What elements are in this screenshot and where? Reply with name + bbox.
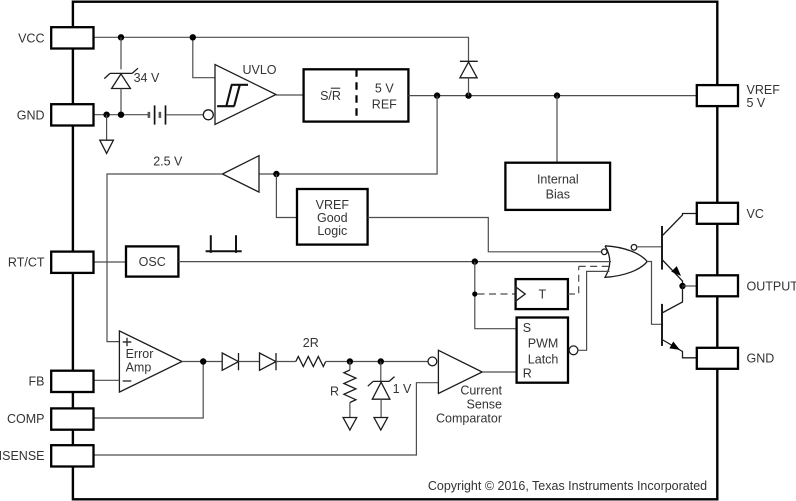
node VREF-diode junction	[465, 92, 471, 98]
diode D2	[222, 353, 238, 370]
svg-text:S/R: S/R	[320, 89, 341, 103]
pin FB	[29, 371, 94, 392]
wire to VREF good logic	[276, 174, 297, 218]
wire internal bias stub	[556, 96, 558, 163]
svg-text:Logic: Logic	[317, 224, 347, 238]
transistor Q1 upper	[662, 214, 697, 287]
op-amp current sense comparator	[428, 350, 482, 393]
node T flip-flop input junction	[472, 291, 477, 296]
wire OR inverted output to upper transistor base	[637, 246, 662, 248]
pin VC	[697, 203, 764, 224]
wire 2R to comparator	[326, 361, 428, 363]
wire UVLO supply branch	[193, 37, 215, 77]
clock waveform glyph	[206, 235, 242, 253]
wire VCC rail	[94, 37, 469, 61]
pin VREF	[697, 83, 780, 110]
wire OSC output to OR gate	[178, 261, 611, 263]
node GND-ground junction	[103, 112, 109, 118]
svg-text:Sense: Sense	[467, 397, 502, 411]
node VCC-zener junction	[118, 34, 124, 40]
node VREF-bias junction	[554, 92, 560, 98]
wire dashed T output to OR gate	[568, 266, 609, 294]
svg-text:VREF: VREF	[316, 198, 350, 212]
svg-text:5 V: 5 V	[747, 96, 766, 110]
wire buffer output to error amp	[107, 174, 222, 342]
wire VREF good logic to OR gate	[368, 218, 602, 252]
svg-text:Current: Current	[460, 383, 502, 397]
wire ISENSE to comparator	[94, 383, 438, 455]
node 2.5V tap junction	[273, 171, 279, 177]
pin ISENSE	[0, 445, 94, 466]
svg-text:REF: REF	[372, 97, 397, 111]
op-amp U1 UVLO comparator	[203, 65, 276, 125]
wire output node to OUTPUT pin	[683, 285, 698, 287]
wire latch output to OR gate	[578, 271, 610, 350]
wire FB to error amp	[94, 379, 120, 381]
block T flip-flop	[516, 279, 568, 309]
block VREF Good Logic	[297, 189, 368, 245]
svg-text:R: R	[523, 366, 532, 380]
svg-text:GND: GND	[747, 352, 775, 366]
battery B1	[149, 105, 166, 124]
svg-text:2R: 2R	[303, 336, 319, 350]
block OSC	[126, 246, 178, 276]
OR gate	[602, 245, 648, 278]
svg-text:GND: GND	[17, 108, 45, 122]
svg-text:T: T	[538, 287, 546, 301]
resistor 2R	[296, 357, 326, 367]
ground symbol below GND pin	[100, 140, 114, 153]
svg-text:PWM: PWM	[528, 336, 559, 350]
wire GND rail	[94, 114, 149, 116]
wire D3 to 2R	[276, 361, 296, 363]
node R junction	[347, 358, 353, 364]
node error amp output junction	[200, 358, 206, 364]
pin COMP	[7, 408, 94, 429]
pin VCC	[18, 27, 93, 48]
svg-text:COMP: COMP	[7, 412, 45, 426]
node VREF-2.5V junction	[434, 92, 440, 98]
diode D3	[260, 353, 277, 370]
svg-text:Copyright © 2016, Texas Instru: Copyright © 2016, Texas Instruments Inco…	[428, 479, 707, 493]
wire battery to UVLO input	[167, 114, 204, 116]
wire 2.5V branch down	[259, 96, 437, 174]
ground symbol below R	[343, 418, 357, 431]
svg-text:S: S	[523, 321, 531, 335]
wire comparator output to latch R	[482, 371, 516, 373]
svg-text:FB: FB	[29, 374, 45, 388]
pin GND right	[697, 348, 774, 369]
svg-text:VC: VC	[747, 207, 764, 221]
node GND-zener junction	[118, 112, 124, 118]
svg-text:Comparator: Comparator	[436, 411, 502, 425]
svg-text:OUTPUT: OUTPUT	[747, 279, 796, 293]
svg-text:Internal: Internal	[537, 172, 579, 186]
wire COMP to error amp output	[94, 362, 203, 419]
wire ground stub	[106, 115, 108, 140]
wire D2 to D3	[239, 361, 260, 363]
node OSC line junction	[472, 258, 478, 264]
pin GND	[17, 104, 94, 125]
block Internal Bias	[505, 163, 610, 210]
ground symbol below 1V zener	[374, 418, 388, 431]
transistor Q2 lower	[662, 286, 697, 358]
wire error amp output	[182, 361, 222, 363]
svg-text:2.5 V: 2.5 V	[153, 155, 183, 169]
pin OUTPUT	[697, 275, 796, 296]
svg-text:OSC: OSC	[139, 255, 166, 269]
zener diode 1V	[368, 362, 395, 418]
buffer 2.5V reference	[222, 156, 259, 192]
svg-text:R: R	[330, 385, 339, 399]
svg-text:1 V: 1 V	[393, 382, 412, 396]
svg-text:Error: Error	[126, 347, 154, 361]
node 1V zener junction	[378, 358, 384, 364]
block PWM Latch	[517, 318, 578, 383]
node output junction	[679, 283, 685, 289]
wire VREF rail	[408, 95, 697, 97]
wire RT/CT to OSC	[94, 261, 127, 263]
svg-text:VCC: VCC	[18, 31, 44, 45]
zener diode D34	[104, 68, 138, 88]
op-amp error amplifier	[119, 331, 182, 392]
zener diode 34V bottom lead	[120, 89, 122, 115]
svg-text:UVLO: UVLO	[242, 63, 276, 77]
node VCC-UVLO junction	[190, 34, 196, 40]
pin RT/CT	[8, 252, 94, 273]
wire UVLO output	[276, 94, 304, 96]
svg-text:Good: Good	[317, 211, 348, 225]
svg-text:Amp: Amp	[126, 360, 152, 374]
resistor R	[344, 362, 356, 418]
svg-text:ISENSE: ISENSE	[0, 449, 45, 463]
svg-text:5 V: 5 V	[375, 81, 394, 95]
wire OSC to PWM latch S input	[475, 262, 517, 329]
svg-text:RT/CT: RT/CT	[8, 256, 45, 270]
svg-text:Latch: Latch	[528, 352, 559, 366]
wire OR output to lower transistor base	[647, 262, 662, 325]
svg-text:34 V: 34 V	[134, 71, 160, 85]
wire dashed to T flip-flop	[478, 293, 516, 295]
diode D1 VCC to VREF	[460, 61, 478, 95]
svg-text:VREF: VREF	[747, 83, 781, 97]
block S/R 5V REF	[304, 69, 409, 121]
svg-text:Bias: Bias	[546, 187, 570, 201]
zener diode 34V top lead	[120, 37, 122, 69]
label Current Sense Comparator	[436, 383, 503, 425]
